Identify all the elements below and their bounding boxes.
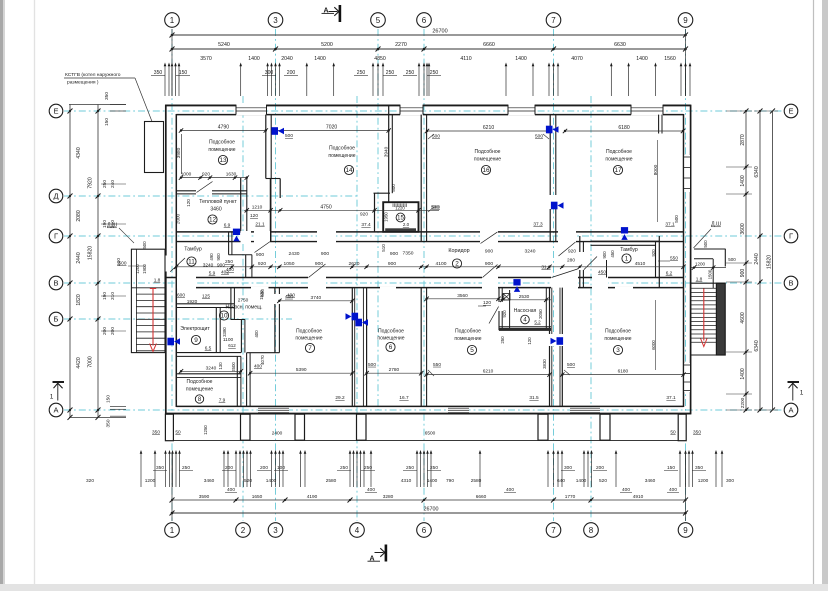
corridor top door swings [255,242,271,253]
svg-text:4510: 4510 [635,261,646,267]
svg-text:7.9: 7.9 [219,398,226,404]
svg-text:Подсобное: Подсобное [187,379,213,385]
svg-text:640: 640 [557,478,565,484]
svg-text:920: 920 [651,249,656,257]
svg-text:1210: 1210 [252,205,263,211]
svg-text:3240: 3240 [203,262,214,268]
svg-text:250: 250 [500,336,505,344]
svg-text:В: В [53,279,58,288]
svg-text:300: 300 [564,465,572,471]
room 7 lower-left jog [247,352,280,354]
svg-text:Г: Г [54,232,58,241]
svg-text:Подсобное: Подсобное [455,329,481,335]
svg-text:5: 5 [470,347,474,354]
svg-text:400: 400 [254,363,262,369]
exterior duct walls right [694,248,726,250]
svg-text:200: 200 [260,465,268,471]
svg-text:Г: Г [789,232,793,241]
right dim cols [745,111,747,410]
blue valve axis7 mid [551,202,558,210]
svg-text:900: 900 [256,252,264,258]
svg-text:350: 350 [156,465,164,471]
svg-text:11: 11 [188,259,195,266]
svg-text:Подсобное: Подсобное [378,329,404,335]
svg-text:6: 6 [389,344,393,351]
outer wall top [165,104,691,106]
svg-text:400: 400 [367,487,375,493]
svg-text:6340: 6340 [754,340,760,351]
svg-text:3740: 3740 [311,295,322,301]
svg-text:7350: 7350 [403,251,414,257]
blue valve corridor tambour11 [233,229,240,235]
svg-text:помещение: помещение [295,336,322,342]
svg-text:500: 500 [142,241,147,249]
wall along D rooms13/12 [176,190,247,192]
svg-text:9: 9 [683,526,688,535]
svg-text:250: 250 [182,465,190,471]
outer wall right [690,105,692,415]
bottom dims row3 [172,499,686,501]
svg-text:Подсобное: Подсобное [605,329,631,335]
svg-text:120: 120 [186,199,191,207]
svg-text:Тамбур: Тамбур [184,247,202,253]
room15 box [383,202,418,232]
blue valve tambour1 [621,227,628,233]
svg-text:400: 400 [669,487,677,493]
svg-text:2870: 2870 [740,134,746,145]
right stair red arrow [703,289,705,341]
svg-text:1400: 1400 [576,478,587,484]
svg-text:4790: 4790 [218,125,229,131]
svg-text:7920: 7920 [88,177,94,188]
svg-text:4100: 4100 [436,261,447,267]
rooms 6/5 wall [420,288,422,407]
blue valve rooms16/17 top [546,126,553,134]
svg-text:3460: 3460 [204,478,215,484]
svg-text:2530: 2530 [519,294,530,300]
svg-text:1.8: 1.8 [696,277,703,283]
svg-text:37.4: 37.4 [361,222,371,228]
grid axes cyan dash-dot [171,29,173,521]
svg-text:350: 350 [693,430,701,436]
left stair treads [131,287,165,289]
blue valve rooms13/14 [271,127,278,135]
svg-text:16.7: 16.7 [399,395,409,401]
svg-text:300: 300 [265,70,274,76]
svg-text:14: 14 [345,167,353,174]
wall room16 left [420,115,422,242]
svg-text:1400: 1400 [740,175,746,186]
svg-text:1000: 1000 [181,172,192,178]
svg-text:1820: 1820 [76,294,82,305]
svg-text:900: 900 [390,251,398,257]
svg-text:100: 100 [277,465,285,471]
svg-text:3280: 3280 [383,494,394,500]
svg-text:2750: 2750 [238,298,249,304]
svg-text:16: 16 [482,167,490,174]
svg-text:6180: 6180 [618,369,629,375]
svg-text:2580: 2580 [326,478,337,484]
svg-text:3: 3 [273,526,278,535]
svg-text:2440: 2440 [754,253,760,264]
svg-text:6: 6 [422,526,427,535]
hatch box symbol room4 left [503,294,510,301]
svg-text:Подсобное: Подсобное [209,140,235,146]
svg-text:900: 900 [485,261,493,267]
svg-text:Е: Е [53,107,58,116]
svg-text:1400: 1400 [266,478,277,484]
svg-text:7: 7 [551,16,556,25]
tambour1 exit door leaf [606,260,608,278]
svg-text:37.3: 37.3 [533,222,543,228]
svg-text:400: 400 [506,487,514,493]
svg-text:5: 5 [376,16,381,25]
svg-text:1400: 1400 [515,56,527,62]
svg-text:300: 300 [726,478,734,484]
svg-text:6630: 6630 [614,42,626,48]
svg-text:помещение: помещение [328,153,355,159]
svg-text:Д.Ш: Д.Ш [711,222,721,228]
svg-text:4190: 4190 [307,494,318,500]
svg-text:29.2: 29.2 [335,395,345,401]
top witness lines [164,66,166,96]
svg-text:500: 500 [535,134,543,140]
svg-text:15820: 15820 [767,255,773,269]
svg-text:2430: 2430 [289,251,300,257]
svg-text:250: 250 [340,465,348,471]
top dim total 26700 [172,34,686,36]
door swing room4 [489,307,499,324]
door swing room13/12 [197,182,213,193]
svg-text:1560: 1560 [664,56,676,62]
svg-text:6.9: 6.9 [224,223,231,229]
svg-text:1200: 1200 [135,264,140,274]
svg-text:2200: 2200 [740,397,746,408]
left dim cols [69,105,71,418]
svg-text:9: 9 [194,337,198,344]
right wall window hatch lower [684,363,690,392]
svg-text:3380: 3380 [222,327,227,337]
porch end stubs [165,414,173,441]
svg-text:9: 9 [683,16,688,25]
svg-text:КСТГВ (котел наружного: КСТГВ (котел наружного [65,72,121,78]
room 4 box [498,288,500,331]
svg-text:помещение: помещение [377,336,404,342]
svg-text:26700: 26700 [424,507,439,513]
room 10 right wall [230,288,232,320]
svg-text:500: 500 [391,184,396,192]
svg-text:17: 17 [614,167,622,174]
svg-text:Подсобное: Подсобное [329,146,355,152]
room 7 left wall [274,288,276,353]
svg-text:4110: 4110 [460,56,471,62]
svg-text:13: 13 [219,157,227,164]
svg-text:12: 12 [209,217,217,224]
svg-text:402: 402 [221,270,229,276]
svg-text:2780: 2780 [389,367,400,373]
svg-text:4340: 4340 [76,147,82,158]
svg-text:3570: 3570 [200,56,212,62]
svg-text:120: 120 [250,213,258,219]
svg-text:500: 500 [567,362,575,368]
blue valve rooms5/3 [557,337,564,345]
svg-text:помещение: помещение [186,387,213,393]
bottom porch line [171,439,686,441]
KSTTV boiler rect [145,122,164,173]
svg-text:7020: 7020 [326,125,337,131]
blue valves shaft rooms7/6 [352,313,359,321]
svg-text:4: 4 [355,526,360,535]
svg-text:1050: 1050 [284,261,295,267]
blue valve electro wall [167,338,174,346]
svg-text:Тепловой пункт: Тепловой пункт [199,198,237,205]
svg-text:1250: 1250 [203,425,208,435]
svg-text:550: 550 [670,256,678,262]
svg-text:1630: 1630 [226,172,237,178]
svg-text:1400: 1400 [636,56,648,62]
svg-text:2080: 2080 [76,210,82,221]
svg-text:250: 250 [386,70,395,76]
svg-text:350: 350 [695,465,703,471]
svg-text:200: 200 [225,465,233,471]
svg-text:2580: 2580 [471,478,482,484]
svg-text:520: 520 [599,478,607,484]
svg-text:4310: 4310 [401,478,412,484]
svg-text:200: 200 [287,70,296,76]
svg-text:помещение: помещение [474,157,501,163]
tambour 1 walls [579,236,581,288]
svg-text:Подсобное: Подсобное [475,149,501,155]
svg-text:Е: Е [788,107,793,116]
svg-text:6210: 6210 [483,125,494,131]
svg-text:2000: 2000 [176,213,181,224]
svg-text:920: 920 [502,310,507,318]
corridor top wall [176,231,683,233]
room15 grille top [392,203,407,207]
room 8 right wall [236,356,238,406]
svg-text:2270: 2270 [395,42,407,48]
top dim axis spans [172,48,686,50]
rooms 9/10 top wall [176,303,234,305]
svg-text:6500: 6500 [425,431,436,437]
svg-text:Б: Б [54,315,59,324]
svg-text:1200: 1200 [695,262,706,267]
svg-text:900: 900 [216,253,221,261]
svg-text:4420: 4420 [76,357,82,368]
svg-text:1400: 1400 [427,478,438,484]
room 13 lower dims [181,177,247,179]
svg-text:200: 200 [596,465,604,471]
porch stubs [241,414,251,440]
right wall window hatch upper [684,155,690,192]
svg-text:50: 50 [670,430,676,436]
svg-text:920: 920 [258,261,266,267]
svg-text:500: 500 [119,261,127,267]
svg-text:3: 3 [273,16,278,25]
svg-text:31.2: 31.2 [541,265,551,271]
right stair enclosure [716,283,725,355]
svg-text:900: 900 [485,249,493,255]
svg-text:1530: 1530 [259,290,264,300]
svg-text:500: 500 [728,257,736,262]
svg-text:Насосн. помещ.: Насосн. помещ. [226,305,263,311]
svg-text:400: 400 [227,487,235,493]
svg-text:150: 150 [104,118,110,126]
svg-text:250: 250 [357,70,366,76]
svg-text:2440: 2440 [76,252,82,263]
svg-text:900: 900 [321,251,329,257]
svg-text:3830: 3830 [542,359,547,369]
svg-text:15: 15 [397,216,404,222]
svg-text:550: 550 [433,362,441,368]
svg-text:7000: 7000 [88,356,94,367]
svg-text:помещение: помещение [454,336,481,342]
svg-text:5.2: 5.2 [534,320,541,325]
room14 annex wall [374,192,391,194]
corridor bottom door swings [309,264,326,278]
svg-text:10: 10 [220,313,228,320]
svg-text:1950: 1950 [384,212,389,222]
outer wall bottom [165,413,691,415]
svg-text:1200: 1200 [698,478,709,484]
room 8 top wall [176,373,241,375]
svg-text:500: 500 [703,240,708,248]
svg-text:900: 900 [217,262,225,268]
axis circles right [784,104,798,118]
svg-text:Подсобное: Подсобное [296,329,322,335]
svg-text:1: 1 [170,526,175,535]
svg-text:500: 500 [368,362,376,368]
svg-text:3240: 3240 [206,365,217,371]
svg-text:1: 1 [50,394,54,401]
svg-text:6.5: 6.5 [205,346,212,352]
svg-text:1: 1 [800,390,804,397]
svg-text:2620: 2620 [349,261,360,267]
left stair red arrow [152,289,154,346]
svg-text:900: 900 [602,251,607,259]
rooms 5/3 walls [549,288,551,407]
svg-text:6210: 6210 [483,369,494,375]
svg-text:4850: 4850 [374,56,386,62]
outer wall left [165,105,167,415]
duct stub room17 top right [658,115,660,134]
blue valve nasosnaya top [513,279,520,285]
room 9 right wall [215,308,217,353]
tambour 11 right wall upper [228,233,230,255]
lower rooms top wall door gaps [251,287,269,299]
svg-text:Коридор: Коридор [448,248,469,254]
svg-text:6660: 6660 [483,42,495,48]
svg-text:520: 520 [244,478,252,484]
svg-text:4910: 4910 [633,494,644,500]
svg-text:размещения ): размещения ) [67,80,99,86]
section mark 1 right [788,381,800,383]
svg-text:31.5: 31.5 [529,395,539,401]
right stair treads [691,287,717,289]
svg-text:8: 8 [589,526,594,535]
svg-text:790: 790 [446,478,454,484]
svg-text:1770: 1770 [565,494,576,500]
dim 4750 line [244,209,439,211]
svg-text:2050: 2050 [538,309,543,319]
svg-text:920: 920 [568,249,576,255]
svg-text:помещение: помещение [208,147,235,153]
axis circles left [49,104,63,118]
svg-text:350: 350 [106,419,112,427]
svg-text:1: 1 [625,256,629,263]
svg-text:6: 6 [422,16,427,25]
room14 right wall upper [388,105,390,202]
corridor bottom wall [166,277,684,279]
svg-text:А: А [788,406,793,415]
svg-text:250: 250 [225,259,233,265]
svg-text:Д.Ш: Д.Ш [107,223,117,229]
rooms 7/6 shaft walls [351,288,353,407]
svg-text:250: 250 [406,70,415,76]
svg-text:8000: 8000 [653,164,659,175]
svg-text:500: 500 [285,133,293,139]
svg-text:250: 250 [430,465,438,471]
svg-text:150: 150 [179,70,188,76]
svg-text:3460: 3460 [645,478,656,484]
tambour 11 right wall lower [245,255,247,278]
tambour 11 jog [229,254,252,256]
svg-text:3460: 3460 [210,207,221,213]
wall room13/14 lower (thick) [270,179,272,243]
svg-text:900: 900 [740,269,746,278]
svg-text:320: 320 [86,478,94,484]
svg-text:Насосная: Насосная [514,308,537,314]
svg-text:120: 120 [527,337,532,345]
svg-text:1500: 1500 [708,269,713,279]
svg-text:2.0: 2.0 [403,222,410,227]
svg-text:130: 130 [218,362,223,370]
room15 bottom bar [385,228,416,231]
svg-text:250: 250 [430,70,439,76]
svg-text:3560: 3560 [457,293,468,299]
svg-text:21.1: 21.1 [255,222,265,228]
section mark 1 left [53,381,65,383]
svg-text:50: 50 [175,430,181,436]
svg-text:250: 250 [406,465,414,471]
svg-text:450: 450 [610,250,615,258]
svg-text:4750: 4750 [320,204,331,210]
svg-text:7: 7 [308,345,312,352]
svg-text:помещение: помещение [605,157,632,163]
svg-text:3590: 3590 [199,494,210,500]
svg-text:250: 250 [364,465,372,471]
bottom witness lines [140,452,142,487]
svg-text:Подсобное: Подсобное [606,149,632,155]
svg-text:280: 280 [567,258,575,264]
svg-text:37.1: 37.1 [666,395,676,401]
svg-text:500: 500 [674,215,679,223]
left stair enclosure [131,249,165,352]
svg-text:920: 920 [360,212,368,218]
svg-text:2: 2 [241,526,246,535]
svg-text:2400: 2400 [272,431,283,437]
room12 right wall [240,178,242,233]
room 9/10 bottom wall [176,352,241,354]
svg-text:2500: 2500 [231,362,236,372]
svg-text:3600: 3600 [740,223,746,234]
svg-text:15820: 15820 [88,246,94,260]
axis circles bottom [165,523,180,538]
svg-text:1650: 1650 [252,494,263,500]
svg-text:1: 1 [170,16,175,25]
svg-text:350: 350 [104,92,110,100]
svg-text:5240: 5240 [218,42,230,48]
